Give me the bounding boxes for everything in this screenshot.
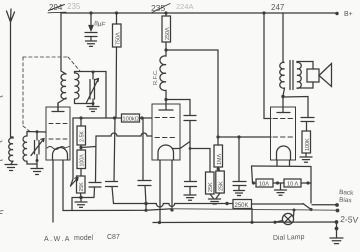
coil L1 primary [61, 74, 66, 99]
wire OT sec top [297, 62, 313, 70]
resistor R3 750ohm [113, 11, 122, 47]
svg-text:250K: 250K [235, 203, 249, 209]
terminal 1 [335, 203, 339, 207]
svg-text:C87: C87 [107, 234, 120, 241]
label RFC [153, 69, 159, 85]
svg-text:A.W.A: A.W.A [44, 236, 71, 243]
wire rail A cont [252, 203, 304, 205]
wire tube1 leg right [62, 160, 64, 211]
ground pot [75, 198, 87, 208]
terminal 4 [335, 227, 339, 231]
wire plate to tube3 [282, 97, 284, 113]
svg-text:25K: 25K [208, 182, 214, 192]
svg-text:235: 235 [67, 2, 81, 11]
node detector [164, 98, 167, 101]
tube V1 grid2 dashes [49, 138, 67, 140]
node 1M bottom [217, 167, 220, 170]
node rail A x172 [170, 208, 173, 211]
node rail A left [144, 202, 147, 205]
tube V1 filament squiggle [47, 147, 69, 150]
resistor R-grid 100k [122, 114, 140, 123]
tube V1 envelope [46, 107, 70, 160]
potentiometer VR 25K [77, 176, 86, 193]
wire to 1M column [166, 50, 218, 145]
node filter center [276, 181, 279, 184]
node tuned1 bottom [36, 159, 39, 162]
speaker LS [307, 64, 332, 87]
svg-text:2-5K: 2-5K [80, 131, 86, 142]
wire tuned2 top [75, 72, 107, 74]
dashed gang link [23, 57, 80, 132]
label AWA model [44, 234, 120, 243]
wire boxcol stem [80, 118, 82, 126]
resistor R7 25K [216, 169, 225, 193]
svg-text:Dial Lamp: Dial Lamp [273, 234, 305, 242]
capacitor C-det2 [185, 182, 197, 195]
node tuned1 top [36, 130, 39, 133]
wire heater rail C [153, 221, 336, 224]
resistor R5 25K [206, 172, 215, 194]
node lamp left [273, 221, 276, 224]
capacitor C-screen3 [233, 137, 246, 190]
transformer OT primary [280, 62, 285, 96]
svg-text:100K: 100K [305, 138, 311, 151]
label 294 struck [49, 3, 63, 12]
tube V3 grid1 dashes [273, 118, 293, 120]
terminal 2 [336, 209, 340, 213]
label B+ [344, 11, 353, 18]
wire plate drop OT [282, 13, 284, 62]
wire R2 to pot [80, 169, 82, 177]
tube V2 grid2 dashes [155, 137, 175, 139]
node rail C x160 [158, 221, 161, 224]
wire cathode staple [72, 198, 94, 211]
capacitor VC1 variable [31, 132, 44, 161]
tube V2 plate [159, 100, 173, 111]
coil RFC [160, 50, 166, 99]
svg-text:100kΩ: 100kΩ [123, 117, 139, 123]
node pot bottom [80, 193, 83, 198]
wire AVC grid line [73, 117, 152, 119]
svg-text:250Λ: 250Λ [165, 27, 171, 40]
wire cathode to cap [81, 147, 96, 148]
svg-text:750Λ: 750Λ [115, 32, 121, 45]
tube V3 grid2 dashes [273, 136, 293, 138]
node tuned2 bottom [92, 102, 95, 105]
resistor R4 250ohm [162, 11, 171, 50]
resistor R8 100K [302, 131, 311, 153]
resistor R2 100ohm [77, 150, 86, 169]
node AVC-750 [113, 116, 116, 119]
capacitor VC2 variable [87, 72, 99, 104]
wire plate RC branch [283, 97, 308, 118]
svg-text:100Λ: 100Λ [80, 154, 86, 167]
node rail C x252 [250, 221, 253, 224]
label 235 ghost [67, 2, 81, 11]
wire coil to tube1 plate [58, 98, 66, 111]
node rail A x227 [225, 202, 228, 205]
resistor R1 2-5K [77, 126, 86, 145]
resistor R6 1M [214, 145, 223, 167]
ground tuned2 [87, 104, 99, 112]
node rail B x146 [144, 209, 147, 212]
coil L2 secondary [75, 73, 79, 99]
wire tube3 legs [277, 160, 290, 166]
switch S1 [303, 204, 311, 210]
wire volume takeoff [190, 149, 210, 173]
wire OT sec bottom [297, 82, 313, 88]
node y137 x239 [237, 135, 240, 138]
transformer OT secondary [297, 62, 301, 88]
node boxcol mid [80, 145, 82, 150]
ground antenna coil [5, 161, 17, 171]
capacitor C-grid2 col [138, 118, 151, 204]
wire tuned1 top [27, 132, 46, 137]
svg-text:model: model [74, 235, 94, 242]
tube V3 envelope [271, 107, 296, 160]
tube V3 cathode dome [277, 146, 291, 160]
node tuned2 top [92, 71, 95, 74]
label 224A ghost [176, 2, 194, 11]
wire plate drop tube1 [61, 13, 66, 74]
ground filter [275, 183, 287, 195]
wire filter top [252, 166, 312, 183]
coil L4 secondary [23, 136, 27, 162]
wire B+ rail [61, 12, 337, 14]
wire tube2 leg right [171, 160, 173, 210]
tube V3 plate [277, 112, 290, 114]
node filter right [306, 181, 309, 184]
tube V1 grid1 dashes [49, 123, 67, 125]
svg-text:2-5V: 2-5V [340, 214, 359, 225]
wire terminal ground [336, 222, 338, 238]
tube V2 grid1 dashes [155, 117, 175, 119]
capacitor C-det1 [184, 116, 196, 182]
resistor R10 10ohm [284, 179, 311, 188]
wire tuned1 bottom [27, 161, 37, 165]
wire tuned2 bottom [75, 99, 94, 104]
label 2-5V [340, 214, 359, 225]
wire heater rail B [63, 209, 172, 211]
wire 250K drop [251, 209, 253, 223]
ground 25K pair [209, 193, 221, 204]
wire screen line y137 [218, 136, 271, 138]
capacitor C-tone [301, 118, 314, 132]
wire tube2 diode lead [172, 142, 190, 149]
ground terminals [330, 238, 343, 244]
wire pot wiper [71, 118, 74, 186]
svg-text:10 Λ: 10 Λ [287, 182, 298, 188]
svg-text:R.F.C.: R.F.C. [153, 69, 159, 85]
wire screen line y136 [96, 133, 152, 136]
node RFC top [164, 48, 167, 51]
tube V2 envelope [152, 104, 180, 160]
tube V1 plate [52, 103, 64, 112]
svg-text:Bias: Bias [339, 197, 352, 205]
dial lamp [275, 209, 296, 225]
transformer OT core [290, 61, 293, 90]
svg-text:25K: 25K [218, 181, 224, 191]
node det col [189, 147, 192, 150]
wire cap3 to railA [145, 204, 147, 211]
svg-text:224A: 224A [176, 2, 194, 11]
node y137 x218 [216, 135, 219, 138]
wire mast to coil3 (cont) [11, 136, 14, 138]
terminal 3 [335, 220, 339, 224]
node boxcol top [79, 116, 82, 119]
ground tone RC [300, 153, 312, 162]
svg-text:B+: B+ [344, 11, 353, 18]
wire tuned2 to grid line [105, 72, 107, 119]
label 247 [271, 3, 285, 12]
node grid tube2 [140, 116, 143, 119]
scan artifacts left edge [0, 96, 3, 214]
node tube3 plate [281, 95, 284, 98]
label Dial Lamp [273, 234, 305, 242]
ground tuned1 [31, 164, 43, 175]
resistor R9 10ohm [253, 179, 273, 188]
capacitor C-screen [89, 136, 101, 198]
svg-text:247: 247 [271, 3, 285, 12]
capacitor C8 8uF [85, 11, 106, 46]
svg-text:25K: 25K [79, 182, 85, 192]
wire detector RC [166, 100, 190, 116]
wire heater rail A [114, 204, 234, 208]
svg-text:1MΛ: 1MΛ [217, 154, 223, 165]
wire tube1 leg left [52, 160, 54, 222]
label Back Bias [339, 189, 354, 204]
wire tube2 leg left [159, 160, 161, 223]
wire grid drop tube3 [262, 11, 265, 14]
resistor R11 250K [233, 200, 252, 210]
svg-text:10Λ: 10Λ [259, 182, 269, 188]
capacitor C-avc [106, 118, 118, 204]
coil L3 antenna [9, 137, 13, 161]
antenna [7, 9, 15, 137]
wire switch drop [310, 183, 312, 203]
label 235 struck [151, 3, 165, 13]
node filter left [252, 181, 255, 184]
wire to terminal 1 [312, 204, 336, 206]
ground C-screen3 [234, 191, 245, 196]
tube V1 cathode dome [53, 148, 68, 160]
ground detector [184, 195, 196, 200]
wire 750 down to AVC node [115, 47, 118, 118]
node B+ [335, 12, 338, 15]
tube V2 cathode dome [158, 145, 174, 160]
